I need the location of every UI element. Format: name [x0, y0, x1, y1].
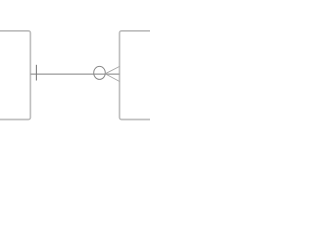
crow's foot bottom prong: [105, 74, 119, 82]
one tick: [35, 65, 37, 81]
entity box left: [0, 31, 30, 120]
entity box right: [120, 31, 162, 120]
crow's foot top prong: [105, 66, 119, 73]
zero circle: [94, 66, 106, 79]
wire relationship line: [30, 73, 119, 75]
